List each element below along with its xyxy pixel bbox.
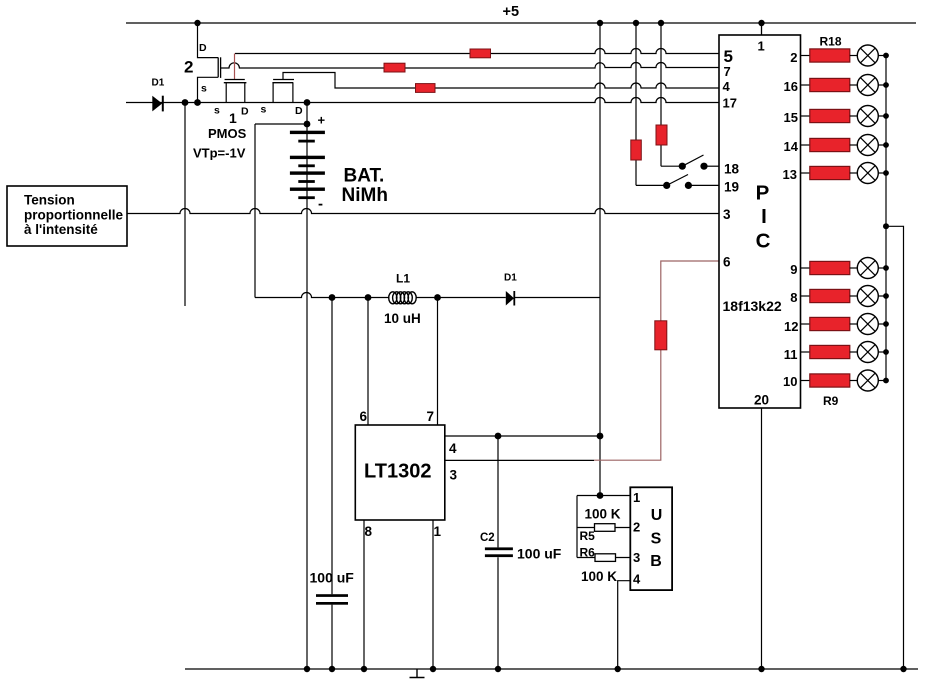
box Tension proportionnelle xyxy=(7,186,127,246)
junction dot ground LT pin1 xyxy=(430,666,436,672)
junction dot pin4 row x=600 xyxy=(597,433,604,440)
battery BAT NiMh xyxy=(290,103,326,670)
IC LT1302 xyxy=(355,425,445,520)
svg-text:Tension: Tension xyxy=(24,193,75,208)
wire vertical x=600 from +5 rail down to USB pin1 net xyxy=(599,23,601,496)
junction dot ground C1 xyxy=(329,666,335,672)
svg-text:LT1302: LT1302 xyxy=(364,461,431,483)
resistor (red) on x=661 line xyxy=(656,125,667,145)
lamp on pin 16 row xyxy=(857,75,886,96)
svg-text:10 uH: 10 uH xyxy=(384,311,421,326)
resistor (red) on pin6 red net xyxy=(655,321,667,350)
ground symbol xyxy=(410,669,425,678)
svg-text:1: 1 xyxy=(758,38,765,53)
svg-text:100 K: 100 K xyxy=(585,506,621,521)
svg-text:11: 11 xyxy=(784,347,798,362)
svg-text:18: 18 xyxy=(724,161,740,176)
diode D1 boost xyxy=(504,272,517,305)
wire vertical x=661 from +5 rail down to switch of pin 18 xyxy=(660,23,662,166)
USB connector box xyxy=(630,487,672,590)
lamp on pin 15 row xyxy=(857,106,886,127)
junction dot on +5 rail at PIC pin1 xyxy=(758,20,764,26)
svg-text:1: 1 xyxy=(434,524,442,539)
red gate link from pin5 row down to transistor 1a gate (hops over pin7 row) xyxy=(234,54,236,80)
resistor (red) output pin 13 xyxy=(801,166,858,179)
svg-text:s: s xyxy=(214,105,220,117)
wire dead-end vertical x=185 down xyxy=(184,103,186,307)
svg-text:100 uF: 100 uF xyxy=(310,570,355,586)
junction dot L1 row 100uF branch xyxy=(329,294,336,301)
svg-text:I: I xyxy=(761,205,767,228)
wire LT pin8 down to ground rail xyxy=(363,520,365,669)
svg-text:1: 1 xyxy=(229,110,237,126)
svg-text:6: 6 xyxy=(723,254,731,269)
resistor (red) output pin 16 xyxy=(801,78,858,91)
wire LT pin1 down to ground rail xyxy=(432,520,434,669)
ground rail xyxy=(185,668,918,670)
transistor Q2 (PMOS 2) xyxy=(184,20,221,103)
wire row to PIC pin 5 with hops xyxy=(235,49,719,54)
lamp on pin 2 row xyxy=(857,45,886,66)
svg-text:3: 3 xyxy=(450,468,458,483)
diode D1 input xyxy=(152,78,165,112)
lamp on pin 14 row xyxy=(857,135,886,156)
junction dot bus pin 14 row xyxy=(883,142,889,148)
svg-text:4: 4 xyxy=(723,79,731,94)
resistor (red) output pin 15 xyxy=(801,109,858,122)
wire battery plus to left branch xyxy=(255,123,307,125)
lamp on pin 12 row xyxy=(857,314,886,335)
svg-text:D: D xyxy=(295,105,303,117)
svg-text:PMOS: PMOS xyxy=(208,126,247,141)
junction dot USB pin1 net x=600 xyxy=(597,492,604,499)
resistor (red) output pin 11 xyxy=(801,345,858,358)
svg-text:à l'intensité: à l'intensité xyxy=(24,222,98,237)
svg-text:s: s xyxy=(261,104,267,116)
svg-text:proportionnelle: proportionnelle xyxy=(24,208,123,223)
svg-text:2: 2 xyxy=(184,58,193,77)
svg-text:R6: R6 xyxy=(580,546,596,560)
resistor (red) output pin 2 xyxy=(801,49,858,62)
svg-text:8: 8 xyxy=(790,290,797,305)
junction dot +5 rail x=636 xyxy=(633,20,639,26)
wire L1 row from x=255 to x=600 with hop over battery line xyxy=(255,293,600,298)
svg-text:8: 8 xyxy=(365,524,373,539)
svg-text:14: 14 xyxy=(784,139,799,154)
resistor (red) output pin 9 xyxy=(801,261,858,274)
junction dot bus pin 9 row xyxy=(883,265,889,271)
wire PIC pin20 down to ground rail xyxy=(761,408,763,669)
transistor Q1b (PMOS 1, right half) xyxy=(261,80,304,118)
wire vertical x=255 from battery plus down to L1 row xyxy=(254,124,256,298)
transistor Q1a (PMOS 1, left half) xyxy=(214,80,249,127)
svg-text:L1: L1 xyxy=(396,272,410,286)
svg-text:6: 6 xyxy=(360,409,368,424)
wire LT pin4 row to x=600 xyxy=(445,435,600,437)
junction dot ground PIC pin20 xyxy=(758,666,764,672)
junction dot bus pin 10 row xyxy=(883,378,889,384)
wire LT pin3 row black part xyxy=(445,459,594,461)
junction dot ground LT pin8 xyxy=(361,666,367,672)
capacitor C2 100uF xyxy=(480,436,562,669)
junction dot bus mid xyxy=(883,223,889,229)
svg-text:16: 16 xyxy=(784,79,798,94)
svg-text:4: 4 xyxy=(449,441,457,456)
junction dot main row x=197.5 xyxy=(194,99,201,106)
wire vertical x=636 from +5 rail down to switch of pin 19 xyxy=(635,23,637,185)
resistor (red) output pin 8 xyxy=(801,289,858,302)
junction dot pin4 row C2 branch xyxy=(495,433,502,440)
resistor (red) output pin 10 xyxy=(801,374,858,387)
svg-text:20: 20 xyxy=(754,393,769,408)
junction dot main row x=185 xyxy=(182,99,189,106)
svg-text:7: 7 xyxy=(427,409,435,424)
svg-text:2: 2 xyxy=(790,50,797,65)
junction dot bus pin 15 row xyxy=(883,113,889,119)
svg-text:D1: D1 xyxy=(152,78,165,89)
junction dot main row battery tap xyxy=(304,99,311,106)
svg-text:10: 10 xyxy=(783,374,797,389)
junction dot L1 row LT pin7 branch xyxy=(434,294,441,301)
lamp return bus vertical xyxy=(885,56,887,381)
IC U1 PIC xyxy=(719,35,801,408)
svg-text:2: 2 xyxy=(633,519,640,534)
svg-text:R18: R18 xyxy=(820,35,842,49)
lamp on pin 8 row xyxy=(857,286,886,307)
junction dot ground battery xyxy=(304,666,310,672)
svg-text:R5: R5 xyxy=(580,529,596,543)
wire USB pin1 row xyxy=(577,495,630,497)
svg-text:C: C xyxy=(756,229,771,252)
svg-text:100 uF: 100 uF xyxy=(517,546,562,562)
svg-text:15: 15 xyxy=(784,110,798,125)
wire USB pin4 down to ground rail xyxy=(618,581,631,669)
svg-text:C2: C2 xyxy=(480,532,495,544)
svg-text:19: 19 xyxy=(724,179,739,194)
junction dot +5 rail x=600 xyxy=(597,20,603,26)
svg-text:S: S xyxy=(651,531,662,548)
svg-text:4: 4 xyxy=(633,572,641,587)
svg-text:VTp=-1V: VTp=-1V xyxy=(193,146,246,161)
wire LT pin7 up to L1 row xyxy=(437,298,439,426)
svg-text:18f13k22: 18f13k22 xyxy=(723,298,782,314)
wire USB divider left vertical xyxy=(576,496,578,558)
lamp on pin 13 row xyxy=(857,163,886,184)
svg-text:s: s xyxy=(201,83,207,95)
inductor L1 xyxy=(384,272,421,327)
svg-text:D: D xyxy=(241,106,249,118)
svg-text:NiMh: NiMh xyxy=(342,185,388,206)
svg-text:13: 13 xyxy=(783,167,797,182)
junction dot bus pin 13 row xyxy=(883,170,889,176)
wire lamp bus to right drop xyxy=(886,226,904,669)
resistor (red) on x=636 line xyxy=(631,140,642,160)
junction dot +5 rail x=661 xyxy=(658,20,664,26)
lamp on pin 10 row xyxy=(857,370,886,391)
svg-text:B: B xyxy=(650,553,662,570)
svg-text:-: - xyxy=(318,196,323,213)
svg-text:1: 1 xyxy=(633,490,640,505)
svg-text:D: D xyxy=(199,42,207,54)
wire Tension row to PIC pin 3 with hops xyxy=(127,209,719,214)
lamp on pin 11 row xyxy=(857,342,886,363)
resistor (red) on pin5 row xyxy=(470,49,491,58)
junction dot bus pin 16 row xyxy=(883,82,889,88)
wire row to PIC pin 4 from transistor 1b gate, with hops xyxy=(283,73,719,89)
svg-text:3: 3 xyxy=(633,550,640,565)
wire LT pin6 up to L1 row xyxy=(367,298,369,426)
resistor R5 100K xyxy=(577,506,630,543)
junction dot bus pin 12 row xyxy=(883,321,889,327)
switch to PIC pin 18 xyxy=(661,155,719,170)
svg-text:+: + xyxy=(318,113,326,128)
svg-text:17: 17 xyxy=(723,96,737,111)
resistor (red) output pin 12 xyxy=(801,317,858,330)
svg-text:3: 3 xyxy=(723,207,731,222)
lamp on pin 9 row xyxy=(857,258,886,279)
junction dot bus pin 8 row xyxy=(883,293,889,299)
wire row to PIC pin 7 from transistor 2 gate, with hops xyxy=(221,63,719,69)
svg-text:BAT.: BAT. xyxy=(344,166,385,187)
junction dot ground C2 xyxy=(495,666,501,672)
capacitor C1 100uF xyxy=(310,298,355,670)
wire main row from D1 to PIC pin 17 with hops xyxy=(126,98,719,103)
svg-text:R9: R9 xyxy=(823,394,839,408)
resistor R6 100K xyxy=(577,546,630,585)
junction dot bus pin 11 row xyxy=(883,349,889,355)
resistor (red) on pin4 row xyxy=(416,84,436,93)
svg-text:7: 7 xyxy=(724,64,731,79)
junction dot ground lamp return xyxy=(900,666,906,672)
svg-text:9: 9 xyxy=(790,262,797,277)
svg-text:+5: +5 xyxy=(503,4,520,20)
wire +5 top rail xyxy=(126,22,916,24)
wire red net PIC pin6 to LT1302 pin3 xyxy=(594,261,719,460)
svg-text:P: P xyxy=(756,182,770,205)
svg-text:100 K: 100 K xyxy=(581,569,617,584)
junction dot ground USB pin4 xyxy=(615,666,621,672)
resistor (red) output pin 14 xyxy=(801,138,858,151)
svg-text:U: U xyxy=(651,507,663,524)
svg-text:12: 12 xyxy=(784,319,798,334)
junction dot L1 row LT pin6 branch xyxy=(365,294,372,301)
svg-text:D1: D1 xyxy=(504,272,517,283)
resistor (red) on pin7 row xyxy=(384,63,405,72)
switch to PIC pin 19 xyxy=(636,175,719,189)
junction dot bus pin 2 row xyxy=(883,53,889,59)
wire vertical drop from +5 to PIC pin 1 xyxy=(761,23,763,35)
